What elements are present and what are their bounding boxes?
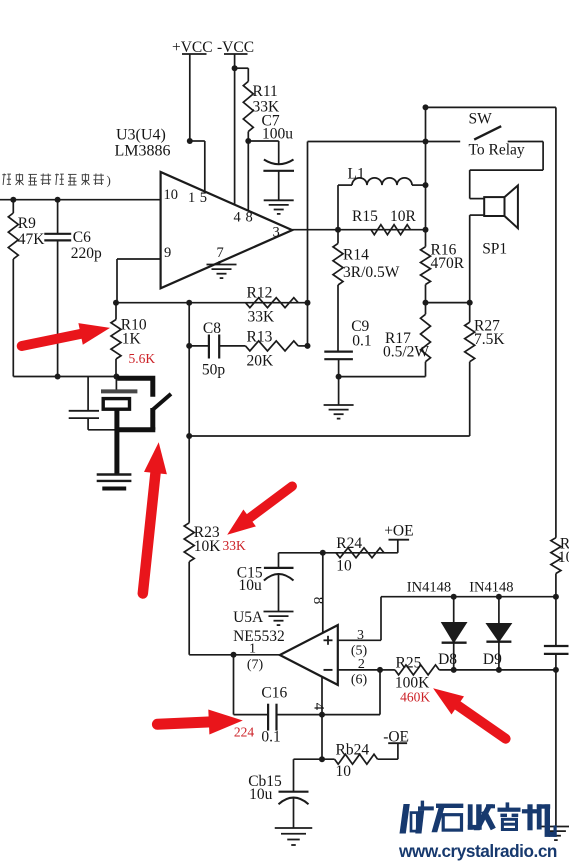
node column top	[423, 104, 429, 110]
pin 5 label	[351, 644, 368, 659]
svg-text:33K: 33K	[223, 538, 247, 553]
svg-text:Rb24: Rb24	[336, 742, 370, 759]
svg-text:R14: R14	[343, 247, 369, 264]
label C7	[262, 113, 294, 143]
label C8	[202, 320, 226, 379]
svg-text:5.6K: 5.6K	[129, 351, 156, 366]
wire right col low	[555, 654, 557, 826]
wire pin5 branch	[190, 141, 205, 192]
wire node row	[116, 302, 308, 304]
label R10	[121, 317, 147, 348]
switch SW blade	[474, 126, 501, 139]
svg-text:IN4148: IN4148	[469, 580, 513, 596]
svg-text:10: 10	[164, 187, 179, 203]
resistor R23	[184, 523, 194, 655]
wire output	[292, 229, 425, 231]
resistor R9	[8, 213, 18, 259]
wire C6 bottom	[57, 240, 59, 376]
label D8	[438, 651, 457, 668]
resistor R10	[111, 303, 121, 377]
label D9	[483, 651, 502, 668]
label IN4148 D9	[469, 580, 513, 596]
node pin4 C16	[319, 712, 325, 718]
resistor R16	[421, 230, 431, 303]
svg-text:R12: R12	[247, 285, 273, 302]
pin 3 label	[357, 628, 364, 643]
wire pin7 stub	[219, 261, 221, 265]
logo crystalradio url	[398, 841, 557, 861]
pin 1 label	[188, 190, 195, 206]
wire diode top bus	[381, 596, 556, 598]
node +VCC split	[187, 138, 193, 144]
svg-text:7.5K: 7.5K	[474, 331, 505, 348]
wire +VCC down	[189, 54, 191, 141]
svg-text:7: 7	[217, 245, 224, 261]
node pin8 top	[320, 550, 326, 556]
wire output NE5532	[189, 654, 280, 656]
label R25	[395, 655, 430, 692]
relay thick L	[117, 378, 153, 397]
svg-text:5: 5	[200, 190, 207, 206]
node feedback left	[186, 433, 192, 439]
svg-text:10R: 10R	[390, 208, 417, 225]
wire C15 R24 row	[279, 552, 398, 554]
pin 4 label	[234, 210, 242, 226]
resistor R13	[246, 341, 299, 351]
ground C7	[264, 200, 294, 214]
svg-text:C6: C6	[73, 229, 91, 246]
svg-text:4: 4	[311, 703, 327, 711]
label R15	[352, 208, 417, 225]
wire relay cap branch	[87, 377, 89, 411]
label R26 clipped	[558, 536, 569, 567]
svg-text:LM3886: LM3886	[115, 143, 171, 160]
wire SW line	[308, 141, 461, 143]
resistor Rb24	[335, 754, 378, 764]
label To Relay	[469, 142, 525, 159]
node R13 right	[305, 343, 311, 349]
svg-text:C16: C16	[261, 685, 287, 702]
wire R17 bottom row	[339, 376, 426, 378]
node minus input	[377, 667, 383, 673]
wire bottom bus	[13, 376, 116, 378]
node D9 top	[496, 594, 502, 600]
resistor R11	[243, 81, 253, 131]
wire C16 left	[234, 655, 269, 715]
label R9	[18, 215, 46, 248]
node R15 right	[423, 227, 429, 233]
diode D9	[486, 597, 511, 670]
red arrow to relay sketch	[143, 442, 167, 593]
svg-text:R15: R15	[352, 208, 378, 225]
label IN4148 D8	[407, 580, 451, 596]
label R25 new value 460K	[400, 690, 430, 705]
resistor R15	[371, 225, 411, 235]
label Rb24	[336, 742, 370, 781]
wire top line	[426, 107, 556, 537]
label R12	[247, 285, 276, 326]
svg-text:R11: R11	[253, 83, 278, 100]
svg-text:0.5/2W: 0.5/2W	[383, 344, 429, 361]
node right col bottom	[553, 667, 559, 673]
svg-text:10u: 10u	[239, 577, 263, 594]
wire branch to R11	[235, 68, 249, 81]
label U3(U4)	[116, 127, 166, 144]
pin 7 label	[247, 658, 264, 673]
node R16 bottom	[423, 300, 429, 306]
capacitor C15	[264, 553, 294, 611]
svg-text:3R/0.5W: 3R/0.5W	[343, 264, 400, 281]
label R16	[431, 242, 465, 273]
plus input symbol	[324, 636, 333, 645]
svg-text:47K: 47K	[18, 231, 46, 248]
pin 9 label	[164, 245, 171, 261]
wire Rb24 row	[294, 758, 335, 760]
wire C6 top	[57, 200, 59, 234]
minus input symbol	[324, 669, 333, 671]
pin 1 label	[249, 642, 256, 657]
pin 2 label	[358, 657, 365, 672]
net -OE	[378, 729, 409, 760]
svg-text:(6): (6)	[351, 673, 368, 688]
svg-text:R13: R13	[247, 329, 273, 346]
wire pin4	[321, 677, 323, 759]
pin 8 rotated label	[310, 597, 326, 605]
wire pin9	[117, 259, 161, 303]
svg-text:33K: 33K	[248, 309, 276, 326]
svg-text:2: 2	[358, 657, 365, 672]
wire C8 col down	[188, 303, 190, 523]
capacitor relay thin	[69, 411, 117, 430]
pin 3 label	[273, 225, 280, 241]
svg-text:224: 224	[234, 725, 255, 740]
node R27 top	[467, 300, 473, 306]
svg-text:To Relay: To Relay	[469, 142, 525, 159]
label R13	[247, 329, 275, 370]
inductor L1	[338, 178, 426, 230]
red arrow to C16 224	[157, 710, 242, 735]
node C9 bottom	[336, 374, 342, 380]
svg-text:R9: R9	[18, 215, 36, 232]
op-amp U3 LM3886 triangle	[161, 172, 293, 288]
node R12 right	[305, 300, 311, 306]
capacitor C8	[209, 335, 219, 359]
node input C6	[55, 197, 61, 203]
svg-text:NE5532: NE5532	[233, 628, 285, 645]
label R10 new value 5.6K	[129, 351, 156, 366]
svg-text:IN4148: IN4148	[407, 580, 451, 596]
capacitor C7	[263, 160, 294, 200]
svg-text:C8: C8	[203, 320, 221, 337]
label LM3886	[115, 143, 171, 160]
wire feedback bus	[189, 435, 470, 437]
svg-text:www.crystalradio.cn: www.crystalradio.cn	[398, 841, 557, 861]
op-amp U5A NE5532 triangle	[280, 625, 338, 685]
label C6	[71, 229, 102, 262]
wire C9 to ground	[338, 377, 340, 405]
pin 6 label	[351, 673, 368, 688]
node D8 bottom	[451, 667, 457, 673]
resistor R26 right edge	[551, 538, 561, 574]
ground right column	[541, 827, 569, 841]
pin 7 label	[217, 245, 224, 261]
svg-text:-OE: -OE	[383, 729, 409, 746]
relay switch lower	[115, 408, 156, 430]
svg-text:L1: L1	[348, 166, 365, 183]
node right col diode bus	[553, 594, 559, 600]
label Cb15	[248, 773, 282, 803]
capacitor right edge	[544, 646, 569, 654]
resistor R27	[465, 303, 475, 436]
svg-text:D8: D8	[438, 651, 457, 668]
node -VCC branch	[232, 65, 238, 71]
svg-text:10: 10	[336, 558, 352, 575]
wire R13 right	[298, 345, 307, 347]
svg-text:100u: 100u	[262, 126, 293, 143]
node D8 top	[451, 594, 457, 600]
relay thick stem	[114, 408, 119, 474]
pin 4 rotated label	[311, 703, 327, 711]
pin 5 label	[200, 190, 207, 206]
svg-text:0.1: 0.1	[352, 333, 371, 350]
resistor R17	[421, 303, 431, 377]
wire R9 top	[12, 200, 14, 213]
net +VCC label	[172, 39, 213, 56]
label R11	[253, 83, 281, 116]
capacitor C6	[44, 234, 71, 241]
capacitor C16	[268, 704, 276, 731]
svg-text:SP1: SP1	[482, 241, 507, 258]
node C6 bottom	[55, 374, 61, 380]
svg-text:): )	[107, 173, 111, 188]
svg-text:10: 10	[336, 763, 352, 780]
logo crystalradio chinese	[400, 801, 557, 837]
wire SP1 bottom	[470, 215, 485, 303]
svg-text:+OE: +OE	[384, 523, 413, 540]
wire column up	[425, 107, 427, 229]
relay plate bar	[101, 389, 137, 393]
node column SW	[423, 139, 429, 145]
label NE5532	[233, 628, 285, 645]
resistor R25	[395, 665, 439, 675]
node L1 right	[423, 182, 429, 188]
wire C8 row left	[189, 345, 209, 347]
wire R9 bottom	[12, 259, 14, 377]
svg-text:10u: 10u	[249, 786, 273, 803]
wire R25 right	[439, 669, 556, 671]
label R27	[474, 318, 505, 349]
svg-text:9: 9	[164, 245, 171, 261]
wire input line	[0, 199, 161, 201]
net +OE	[384, 523, 413, 553]
svg-text:1K: 1K	[122, 331, 142, 348]
node R10 bottom	[113, 374, 119, 380]
svg-text:U3(U4): U3(U4)	[116, 127, 166, 144]
relay switch blade	[152, 394, 171, 410]
wire SW right	[470, 142, 543, 199]
resistor R24	[336, 548, 384, 558]
red arrow to R23 33K	[227, 486, 292, 535]
label L1	[348, 166, 365, 183]
wire C16 right	[277, 670, 381, 715]
resistor R12	[246, 298, 299, 308]
node pin4 bottom	[319, 756, 325, 762]
wire pin3 stub	[338, 597, 381, 641]
red arrow to R10	[22, 323, 110, 346]
capacitor Cb15	[279, 759, 309, 827]
svg-text:1: 1	[188, 190, 195, 206]
svg-text:R25: R25	[396, 655, 422, 672]
svg-text:D9: D9	[483, 651, 502, 668]
label C16	[261, 685, 287, 746]
wire pin2 stub	[338, 669, 380, 671]
ground pin7	[207, 265, 237, 279]
svg-text:3: 3	[357, 628, 364, 643]
svg-text:20K: 20K	[247, 353, 275, 370]
wire R10 to relay	[115, 377, 117, 392]
wire to R25	[380, 669, 395, 671]
label C16 new value 224	[234, 725, 255, 740]
label R24	[336, 535, 362, 575]
speaker SP1	[484, 186, 518, 229]
red arrow to R25 460K	[433, 688, 506, 738]
label R23 new value 33K	[223, 538, 247, 553]
svg-text:U5A: U5A	[233, 609, 264, 626]
node output C16	[231, 652, 237, 658]
node C8 column	[186, 300, 192, 306]
svg-text:R24: R24	[336, 535, 362, 552]
wire SW riser	[307, 142, 309, 346]
svg-text:(7): (7)	[247, 658, 264, 673]
svg-text:10K: 10K	[194, 538, 222, 555]
node C8 left	[186, 343, 192, 349]
node D9 bottom	[496, 667, 502, 673]
wire C8 row right	[219, 345, 245, 347]
node input R9	[10, 197, 16, 203]
ground C15	[264, 612, 294, 626]
svg-text:8: 8	[246, 210, 253, 226]
wire -VCC down pin4	[234, 54, 236, 205]
svg-text:460K: 460K	[400, 690, 430, 705]
wire R16 R27 row	[426, 302, 470, 304]
ground C9	[324, 405, 354, 419]
label U5A	[233, 609, 264, 626]
wire R11 to pin8	[247, 132, 249, 211]
svg-text:10: 10	[558, 549, 569, 566]
label SW	[469, 111, 493, 128]
wire C7 branch	[248, 141, 278, 164]
svg-text:470R: 470R	[431, 255, 465, 272]
wire right col mid	[555, 574, 557, 647]
label SP1	[482, 241, 507, 258]
net -VCC label	[217, 39, 254, 56]
svg-text:4: 4	[234, 210, 242, 226]
node R11 bottom	[245, 138, 251, 144]
diode D8	[442, 597, 467, 670]
wire pin8	[322, 553, 324, 633]
svg-text:50p: 50p	[202, 362, 226, 379]
label R23	[194, 524, 222, 555]
label C9	[351, 318, 371, 350]
svg-text:SW: SW	[469, 111, 493, 128]
label R14	[343, 247, 400, 282]
ground Cb15	[275, 828, 313, 845]
node pin9 R10	[113, 300, 119, 306]
note chinese jumper text	[0, 173, 111, 188]
label C15	[237, 565, 263, 595]
resistor R14	[333, 230, 343, 352]
relay coil box	[103, 399, 129, 410]
capacitor C9	[324, 352, 353, 377]
ground relay	[97, 475, 132, 489]
pin 8 label	[246, 210, 253, 226]
pin 10 label	[164, 187, 179, 203]
label R17	[383, 330, 429, 361]
svg-text:220p: 220p	[71, 245, 102, 262]
svg-text:3: 3	[273, 225, 280, 241]
node output L1R15	[335, 227, 341, 233]
svg-text:0.1: 0.1	[261, 729, 280, 746]
